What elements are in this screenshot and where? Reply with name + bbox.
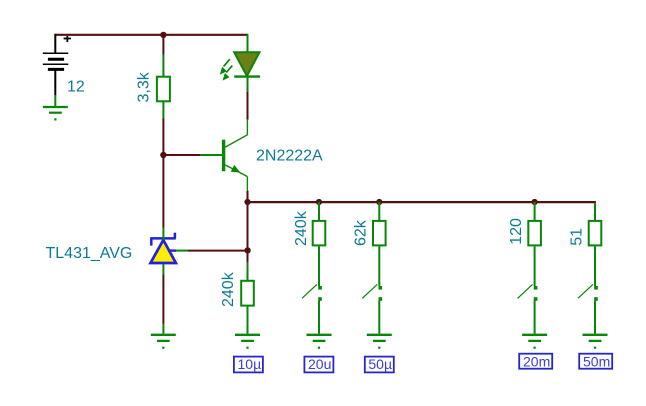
resistor R4 62k (373, 202, 386, 286)
svg-text:50µ: 50µ (368, 356, 392, 372)
svg-text:240k: 240k (293, 210, 310, 246)
wire node B down to U1 (162, 155, 164, 228)
node A (top rail / R1) (160, 32, 166, 38)
resistor R6 51 (589, 203, 602, 286)
wire base (163, 154, 200, 156)
wire LED cathode down (247, 92, 249, 120)
transistor Q1 2N2222A (222, 120, 248, 191)
wire battery to ground (54, 95, 56, 107)
resistor R5 120 (528, 202, 541, 286)
LED D1 (220, 34, 260, 92)
wire R1 to node B (162, 119, 164, 156)
svg-text:20m: 20m (523, 353, 550, 369)
ground U1 (151, 335, 176, 349)
wire node D down (247, 251, 249, 263)
switch S1 (302, 284, 322, 333)
svg-text:TL431_AVG: TL431_AVG (46, 245, 133, 262)
svg-text:12: 12 (67, 79, 85, 96)
node F (rail / R4) (376, 199, 382, 205)
ground S2 (367, 335, 392, 349)
svg-text:62k: 62k (352, 219, 369, 246)
node B (base junction) (160, 152, 166, 158)
wire main rail (248, 201, 596, 203)
svg-text:2N2222A: 2N2222A (256, 148, 323, 165)
ground S1 (307, 335, 332, 349)
ground S3 (522, 335, 547, 349)
node C (emitter / rail) (244, 199, 250, 205)
svg-text:20u: 20u (308, 356, 331, 372)
switch S4 (578, 284, 598, 333)
value box 10µ (234, 356, 263, 373)
value box 20m (519, 353, 552, 369)
resistor R1 3,3k (157, 55, 170, 119)
svg-text:240k: 240k (220, 271, 237, 307)
wire ref to node D (188, 250, 248, 252)
node G (rail / R5) (532, 199, 538, 205)
value box 50µ (365, 356, 394, 373)
ground S4 (583, 335, 608, 349)
node D (ref junction) (244, 247, 250, 253)
ground battery (43, 107, 68, 121)
resistor R3 240k (313, 202, 326, 286)
svg-text:3,3k: 3,3k (136, 71, 153, 102)
wire node A down (162, 35, 164, 55)
wire node C down (247, 202, 249, 251)
svg-text:10µ: 10µ (238, 356, 262, 372)
ground R2 (235, 335, 260, 349)
svg-text:120: 120 (508, 218, 525, 245)
node E (rail / R3) (316, 199, 322, 205)
battery V1 (43, 34, 71, 95)
value box 20u (304, 356, 333, 373)
value box 50m (579, 353, 612, 369)
wire top rail (55, 34, 248, 36)
svg-text:51: 51 (568, 228, 585, 246)
wire U1 to ground (162, 275, 164, 324)
op-amp U1 TL431_AVG (150, 228, 188, 275)
resistor R2 240k (241, 263, 254, 334)
switch S2 (362, 284, 382, 333)
wire emitter to rail node (247, 191, 249, 202)
switch S3 (518, 284, 538, 333)
svg-text:50m: 50m (583, 353, 610, 369)
